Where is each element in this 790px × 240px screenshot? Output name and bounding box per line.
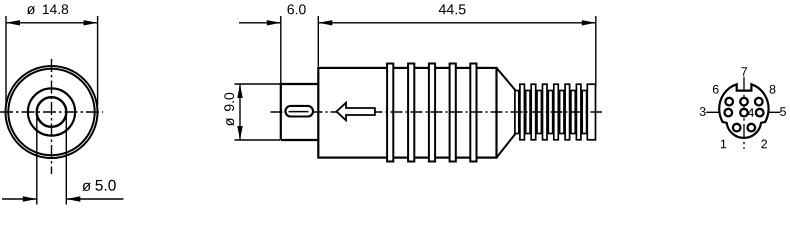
rib 3 [429, 64, 435, 162]
taper top [497, 68, 516, 91]
boot short slat 1 [526, 91, 530, 134]
right tick at pin row [769, 111, 781, 113]
vertical centerline of face view [743, 77, 745, 149]
pin label 8 [770, 85, 776, 94]
boot short slat 2 [537, 91, 541, 134]
boot short slat 3 [548, 91, 552, 134]
extension line left of ø5.0 [36, 113, 38, 205]
boot tall slat 2 [531, 84, 536, 140]
centerline through slot [289, 111, 309, 113]
boot tall slat 1 [520, 84, 525, 140]
main body [318, 68, 496, 158]
shell outline with key notch and chin [719, 84, 768, 138]
extension line right of ø14.8 [97, 16, 99, 105]
vertical centerline of front view [51, 59, 53, 174]
dimension arrow 6.0 (outside left, pointing right) [239, 20, 281, 25]
boot tall slat 5 [565, 84, 570, 140]
dimension text 6.0 [288, 4, 306, 14]
extension line 6.0 left [280, 16, 282, 83]
extension line left of ø14.8 [5, 16, 7, 105]
boot short slat 6 [582, 91, 586, 134]
ø9.0 top extension line [235, 83, 281, 85]
horizontal centerline of side view [271, 111, 603, 113]
extension line 6.0 right / 44.5 left [317, 16, 319, 67]
pin label 2 [761, 140, 767, 149]
pin 4 hole [740, 109, 748, 117]
extension line 44.5 right [595, 16, 597, 87]
pin label 5 [780, 107, 786, 116]
extension line right of ø5.0 [65, 113, 67, 205]
boot tall slat 3 [543, 84, 548, 140]
boot first short slat [515, 91, 519, 134]
inner circle ø5 [37, 97, 67, 127]
rib 2 [408, 64, 414, 162]
dimension line 44.5 with outward arrows [318, 20, 596, 25]
pin label 4 [748, 108, 754, 117]
outer circle (outer line) [6, 66, 98, 158]
pin 2 hole [748, 124, 756, 132]
ø9.0 bottom extension line [235, 139, 281, 141]
horizontal centerline of front view [0, 111, 103, 113]
pin label 6 [713, 85, 719, 94]
middle circle [28, 88, 75, 135]
slot in barrel [285, 106, 313, 117]
rib 4 [450, 64, 456, 162]
dimension line ø5.0 right part with arrow [66, 196, 123, 201]
boot end cap [587, 84, 595, 140]
pin 3 hole [725, 109, 733, 117]
pin label 7 [741, 67, 747, 76]
pin label 1 [721, 140, 726, 149]
taper bottom [497, 134, 516, 158]
insertion arrow (open, pointing left) [337, 103, 375, 121]
pin 6 hole [725, 98, 733, 106]
pin 8 hole [755, 98, 763, 106]
boot short slat 4 [560, 91, 564, 134]
dimension text 44.5 [439, 4, 466, 14]
boot tall slat 6 [576, 84, 581, 140]
dimension text ø 14.8 [27, 4, 68, 14]
boot tall slat 4 [554, 84, 559, 140]
left tick at pin row [706, 111, 719, 113]
outer circle (inner line) [8, 69, 94, 155]
pin 5 hole [756, 109, 764, 117]
dimension line ø14.8 with outward arrows [6, 20, 98, 25]
ø9.0 dimension line with outward arrows [237, 84, 242, 140]
dimension text ø 9.0 (rotated) [224, 93, 234, 126]
pin label 3 [700, 107, 706, 116]
pin 7 hole [740, 98, 748, 106]
boot short slat 5 [571, 91, 575, 134]
rib 5 [470, 64, 476, 162]
rib 1 [387, 64, 393, 162]
dimension line ø5.0 left part with arrow [2, 196, 37, 201]
barrel (ø9 shell) [281, 84, 319, 140]
pin 1 hole [733, 124, 741, 132]
dimension text ø 5.0 [82, 180, 115, 191]
